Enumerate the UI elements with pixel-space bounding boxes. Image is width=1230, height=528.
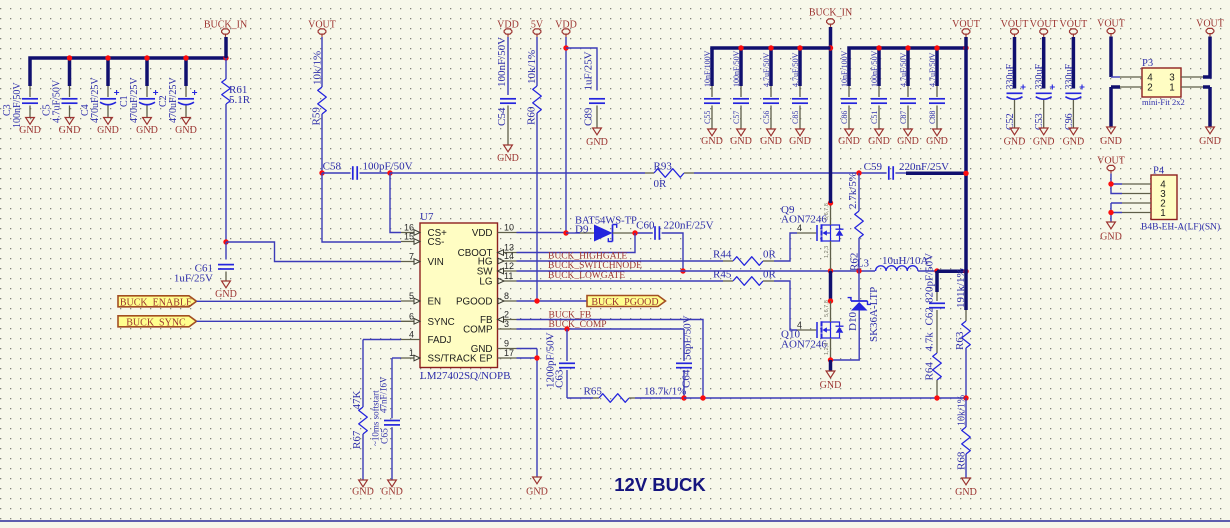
wire VDD vertical (565, 37, 567, 233)
ground GND (power stage) (829, 360, 833, 371)
svg-text:12V BUCK: 12V BUCK (614, 474, 706, 495)
ground GND (R67) (359, 480, 368, 487)
pin 2 FB (U7 right) (498, 319, 517, 321)
svg-text:0R: 0R (654, 178, 668, 190)
svg-text:820pF/50V: 820pF/50V (924, 253, 936, 303)
svg-text:GND: GND (1199, 136, 1221, 147)
wire R44 to Q9 gate (774, 233, 797, 261)
junction L3 out / C62 (937,271) (934, 268, 939, 273)
ground GND (C87) (904, 129, 913, 136)
resistor R67 47K (363, 339, 401, 341)
svg-text:2.7k/5%: 2.7k/5% (847, 172, 859, 209)
wire FB rail (684, 397, 966, 399)
pin 16 CS+ (U7 left) (401, 232, 420, 234)
resistor R59 10k/1% (321, 37, 323, 87)
svg-text:BUCK_LOWGATE: BUCK_LOWGATE (548, 271, 625, 281)
ground GND (P3 pin 1) (1203, 87, 1210, 127)
pin 13 CBOOT (U7 right) (498, 252, 517, 254)
svg-text:BUCK_HIGHGATE: BUCK_HIGHGATE (548, 252, 627, 262)
svg-text:47K: 47K (351, 391, 363, 410)
junction bus B x=937 (934, 45, 939, 50)
resistor R61 5.1R (225, 58, 227, 79)
svg-text:PGOOD: PGOOD (456, 297, 492, 308)
pin 1 (P4) (1122, 212, 1151, 214)
svg-text:R59: R59 (311, 107, 323, 126)
svg-text:1uF/25V: 1uF/25V (174, 273, 213, 285)
junction R63/R68 (966,398) (963, 395, 968, 400)
svg-text:C89: C89 (583, 107, 595, 126)
capacitor C56 4.7uF/50V (770, 86, 772, 97)
junction VOUT rail (966,271) (963, 269, 968, 274)
junction COMP/C63 (567,329) (564, 326, 569, 331)
junction Q10 drain (830.5,301) (828, 298, 833, 303)
ground GND (C5) (65, 118, 74, 125)
resistor R60 10k/1% (536, 37, 538, 86)
junction SW/R62/D10 (859,271) (856, 268, 861, 273)
svg-text:220nF/25V: 220nF/25V (664, 220, 714, 232)
capacitor C58 100pF/50V (322, 172, 351, 174)
svg-text:C65: C65 (381, 428, 391, 444)
ground GND (C88) (933, 129, 942, 136)
svg-text:C56: C56 (762, 111, 771, 124)
ground GND (C86) (845, 129, 854, 136)
inductor L3 10uH/10A (876, 266, 918, 271)
svg-text:AON7246: AON7246 (781, 214, 827, 226)
svg-text:4: 4 (409, 330, 414, 340)
svg-text:0R: 0R (763, 269, 777, 281)
capacitor C59 220nF/25V (888, 166, 890, 180)
svg-text:47nF/16V: 47nF/16V (379, 376, 389, 413)
junction BUCK_IN bus x=186 (183, 55, 188, 60)
port flag BUCK_SYNC (118, 316, 197, 327)
pin 14 HG (U7 right) (498, 260, 517, 262)
junction C60/SW (683,271) (680, 268, 685, 273)
svg-text:COMP: COMP (463, 325, 493, 336)
pin 7 VIN (U7 left) (401, 261, 420, 263)
svg-text:100nF/50V: 100nF/50V (12, 82, 23, 128)
svg-text:R68: R68 (956, 451, 968, 470)
svg-text:10k/1%: 10k/1% (526, 50, 538, 84)
svg-text:BUCK_PGOOD: BUCK_PGOOD (591, 297, 658, 308)
svg-text:330uF: 330uF (1005, 64, 1016, 90)
svg-text:AON7246: AON7246 (781, 339, 827, 351)
svg-text:GND: GND (838, 136, 860, 147)
svg-text:GND: GND (760, 136, 782, 147)
wire R93 to C59 (694, 172, 887, 174)
svg-text:GND: GND (1100, 232, 1122, 243)
wire VOUT rail vertical (thick) (964, 37, 968, 271)
svg-text:R44: R44 (713, 249, 732, 261)
junction P4 pin1 (1111,212.5) (1108, 210, 1113, 215)
svg-text:2: 2 (504, 310, 509, 320)
svg-text:330uF: 330uF (1064, 64, 1075, 90)
svg-text:GND: GND (136, 125, 158, 136)
svg-text:6: 6 (409, 311, 414, 321)
junction CS+ node (390,173) (387, 170, 392, 175)
capacitor C3 100nF/50V (29, 86, 31, 97)
svg-text:1,2,3: 1,2,3 (824, 246, 830, 258)
pin 4 (P4) (1122, 183, 1151, 185)
svg-text:P3: P3 (1142, 58, 1153, 69)
svg-text:GND: GND (352, 487, 374, 498)
junction Q10 source / D10 anode (830.5,360) (828, 357, 833, 362)
junction Q9 drain (830.5,203) (828, 200, 833, 205)
svg-text:C59: C59 (864, 161, 883, 173)
resistor R65 18.7k/1% (567, 397, 593, 399)
svg-text:470uF/25V: 470uF/25V (168, 77, 179, 123)
pin 2 (P4) (1122, 202, 1151, 204)
wire SW node bar Q9-Q10 (thick) (829, 271, 833, 301)
junction VIN node (226,242) (223, 239, 228, 244)
pin 10 VDD (U7 right) (498, 232, 517, 234)
svg-text:10uH/10A: 10uH/10A (882, 255, 929, 267)
svg-text:GND: GND (897, 136, 919, 147)
svg-text:470uF/25V: 470uF/25V (90, 77, 101, 123)
wire PGOOD pin 8 (517, 300, 588, 302)
ground GND (C53) (1039, 128, 1048, 135)
port flag BUCK_ENABLE (118, 296, 197, 307)
wire VOUT bus (right bank B) (849, 48, 966, 86)
wire GND to P4 pins 2,1 (1111, 203, 1122, 222)
junction R64 bottom (937,398) (934, 395, 939, 400)
svg-text:EP: EP (479, 354, 493, 365)
svg-text:14: 14 (504, 251, 514, 261)
ground GND (C89) (593, 128, 602, 135)
svg-text:FADJ: FADJ (428, 335, 452, 346)
wire COMP pin 3 (517, 328, 685, 330)
svg-text:100nF/50V: 100nF/50V (732, 50, 741, 87)
junction CBOOT node (635,233) (632, 230, 637, 235)
capacitor C65 47nF/16V (392, 357, 401, 359)
svg-text:GND: GND (1004, 137, 1026, 148)
svg-text:4.7uF/50V: 4.7uF/50V (928, 52, 937, 87)
svg-text:D9: D9 (575, 224, 589, 236)
svg-text:9: 9 (504, 339, 509, 349)
ground GND (C2) (182, 118, 191, 125)
svg-text:8: 8 (504, 291, 509, 301)
wire BUCK_IN bus (right bank A) (712, 48, 831, 86)
wire BUCK_SYNC to SYNC pin 6 (197, 320, 402, 322)
pin 3 (P4) (1122, 193, 1151, 195)
capacitor C86 10nF/100V (848, 86, 850, 97)
connector P4 B4B-EH-A(LF)(SN) (1151, 175, 1177, 220)
svg-text:10: 10 (504, 223, 514, 233)
svg-text:C58: C58 (323, 161, 342, 173)
svg-text:1: 1 (1160, 208, 1165, 219)
svg-text:GND: GND (97, 125, 119, 136)
junction BUCK_IN bus (830.5,48) (828, 45, 833, 50)
capacitor C63 1200pF/50V (566, 329, 568, 361)
svg-text:SYNC: SYNC (428, 317, 455, 328)
svg-text:3: 3 (504, 319, 509, 329)
svg-text:10nF/100V: 10nF/100V (840, 50, 849, 87)
svg-text:BUCK_IN: BUCK_IN (809, 8, 852, 19)
pin 9 GND (U7 right) (498, 348, 517, 350)
ground GND (C65) (388, 480, 397, 487)
svg-text:56pF/50V: 56pF/50V (682, 315, 694, 360)
wire VOUT to P3 pin 3 (thick) (1203, 37, 1210, 78)
svg-text:10k/1%: 10k/1% (957, 395, 968, 426)
svg-text:GND: GND (175, 125, 197, 136)
ground GND (R68) (962, 478, 971, 485)
svg-text:100pF/50V: 100pF/50V (363, 161, 413, 173)
svg-text:1uF/25V: 1uF/25V (583, 51, 595, 90)
svg-text:GND: GND (59, 125, 81, 136)
ground GND (P4) (1107, 222, 1116, 229)
junction BUCK_IN bus x=69.5 (67, 55, 72, 60)
ground GND (U7) (533, 477, 542, 484)
svg-text:11: 11 (504, 271, 513, 281)
svg-text:VDD: VDD (472, 228, 493, 239)
capacitor C61 1uF/25V (225, 242, 227, 260)
svg-text:GND: GND (497, 153, 519, 164)
transistor Q10 AON7246 (797, 329, 816, 331)
svg-text:R65: R65 (584, 386, 603, 398)
junction EP (537,358) (534, 355, 539, 360)
svg-text:C63: C63 (554, 369, 566, 388)
ground GND (C1) (143, 118, 152, 125)
svg-text:GND: GND (789, 136, 811, 147)
wire VIN to pin 7 (226, 242, 401, 262)
capacitor C57 100nF/50V (740, 86, 742, 97)
ground GND (C61) (222, 281, 231, 288)
svg-text:2: 2 (1147, 83, 1152, 94)
svg-text:GND: GND (730, 136, 752, 147)
diode D10 SK36A-LTP (858, 271, 860, 301)
svg-text:mini-Fit 2x2: mini-Fit 2x2 (1142, 97, 1185, 107)
svg-text:100nF/50V: 100nF/50V (870, 50, 879, 87)
svg-text:EN: EN (428, 297, 442, 308)
svg-text:P4: P4 (1153, 166, 1165, 177)
svg-text:4.7uF/50V: 4.7uF/50V (52, 79, 63, 123)
svg-text:15: 15 (404, 232, 414, 242)
wire HG pin 14 to R44 (517, 260, 724, 262)
pin 6 SYNC (U7 left) (401, 320, 420, 322)
junction bus A x=741 (738, 45, 743, 50)
junction C64 bottom (684,398) (681, 395, 686, 400)
svg-text:CS-: CS- (428, 237, 445, 248)
junction FB down-wire (703,398) (700, 395, 705, 400)
svg-text:GND: GND (701, 136, 723, 147)
pin 1 (P3) (1181, 86, 1203, 88)
svg-text:R63: R63 (954, 331, 966, 350)
svg-text:GND: GND (1063, 137, 1085, 148)
svg-text:C86: C86 (840, 111, 849, 124)
resistor R62 2.7k/5% (858, 173, 860, 211)
pin 11 LG (U7 right) (498, 280, 517, 282)
wire CS- (322,173) down to pin 15 (322, 173, 401, 242)
pin 5 EN (U7 left) (401, 300, 420, 302)
svg-text:D10: D10 (847, 312, 859, 331)
ground GND (P3 pin 2) (1111, 87, 1120, 127)
wire LG pin 11 to R45 (517, 280, 724, 282)
ground GND (C56) (767, 129, 776, 136)
svg-text:C87: C87 (899, 111, 908, 124)
pin 1 SS/TRACK (U7 left) (401, 357, 420, 359)
capacitor C60 220nF/25V (654, 226, 656, 240)
ground GND (C52) (1010, 128, 1019, 135)
svg-text:5.1R: 5.1R (229, 94, 251, 106)
junction VOUT bus/vertical (966,48) (963, 45, 968, 50)
capacitor C55 10nF/100V (711, 86, 713, 97)
svg-text:5,6,7,8: 5,6,7,8 (824, 300, 830, 317)
svg-text:R67: R67 (351, 430, 363, 449)
ground GND (C3) (26, 118, 35, 125)
port flag BUCK_PGOOD (587, 296, 666, 307)
capacitor C1 470uF/25V (146, 86, 148, 97)
svg-text:GND: GND (926, 136, 948, 147)
junction SW/Q9-Q10 (830.5,271) (828, 268, 833, 273)
svg-text:VIN: VIN (428, 257, 444, 268)
svg-text:R60: R60 (526, 106, 538, 125)
ground GND (C54) (504, 145, 513, 152)
junction VDD/C89 (566,48) (563, 45, 568, 50)
wire FB pin 2 (517, 320, 704, 399)
svg-text:1: 1 (409, 348, 414, 358)
junction BUCK_IN bus x=226 (223, 55, 228, 60)
capacitor C85 4.7uF/50V (799, 86, 801, 97)
pin 4 (P3) (1120, 76, 1142, 78)
sheet border line (0, 520, 1230, 522)
svg-text:U7: U7 (420, 211, 434, 223)
svg-text:191k/1%: 191k/1% (955, 268, 967, 308)
junction bus A x=800 (797, 45, 802, 50)
wire L3 to VOUT rail (thick) (937, 270, 966, 274)
svg-text:4.7uF/50V: 4.7uF/50V (762, 52, 771, 87)
svg-text:C51: C51 (870, 111, 879, 124)
svg-text:0R: 0R (763, 249, 777, 261)
junction bus A x=771 (768, 45, 773, 50)
capacitor C5 4.7uF/50V (69, 86, 71, 97)
wire BUCK_IN vertical (thick) (829, 27, 833, 203)
junction BUCK_IN bus x=108 (105, 55, 110, 60)
svg-text:GND: GND (955, 487, 977, 498)
op-amp U7 LM27402SQ/NOPB (buck controller IC) (420, 223, 498, 368)
svg-text:4.7uF/50V: 4.7uF/50V (899, 52, 908, 87)
svg-text:C55: C55 (703, 111, 712, 124)
resistor R93 0R (645, 172, 654, 174)
pin 2 (P3) (1120, 86, 1142, 88)
wire CS+ (390,173) down to pin 16 (390, 173, 401, 233)
svg-text:220nF/25V: 220nF/25V (899, 161, 949, 173)
capacitor C52 330uF (1013, 37, 1017, 89)
svg-text:C54: C54 (496, 107, 508, 126)
junction VOUT rail/C59 (966,173) (963, 171, 968, 176)
capacitor C87 4.7uF/50V (907, 86, 909, 97)
svg-text:R64: R64 (924, 362, 936, 381)
wire VOUT to P3 pin 4 (thick) (1109, 37, 1113, 78)
svg-text:R45: R45 (713, 269, 732, 281)
junction sense node (322,173) (319, 170, 324, 175)
svg-text:GND: GND (381, 487, 403, 498)
svg-text:GND: GND (586, 137, 608, 148)
diode D9 BAT54WS-TP (566, 232, 580, 234)
svg-text:10k/1%: 10k/1% (312, 51, 324, 85)
capacitor C2 470uF/25V (185, 86, 187, 97)
svg-text:GND: GND (1100, 136, 1122, 147)
svg-text:GND: GND (820, 380, 842, 391)
resistor R63 191k/1% (964, 271, 968, 310)
svg-text:100nF/50V: 100nF/50V (496, 37, 508, 87)
pin 17 EP (U7 right) (498, 357, 517, 359)
svg-text:GND: GND (19, 125, 41, 136)
wire BUCK_IN bus (left cap bank) (30, 58, 226, 86)
ground GND (C57) (737, 129, 746, 136)
svg-text:B4B-EH-A(LF)(SN): B4B-EH-A(LF)(SN) (1141, 222, 1220, 233)
junction VDD pin10/D9 (566,233) (517, 232, 567, 234)
wire sense line to R93 (390, 172, 645, 174)
pin 4 FADJ (U7 left) (401, 339, 420, 341)
ground GND (C55) (708, 129, 717, 136)
svg-text:GND: GND (868, 136, 890, 147)
transistor Q9 AON7246 (797, 232, 816, 234)
svg-text:BUCK_ENABLE: BUCK_ENABLE (120, 297, 192, 308)
capacitor C54 100nF/50V (507, 37, 509, 95)
svg-text:4.7k: 4.7k (924, 332, 936, 352)
junction R62 top (859,173) (856, 170, 861, 175)
svg-text:BUCK_SYNC: BUCK_SYNC (126, 317, 186, 328)
svg-text:GND: GND (215, 289, 237, 300)
svg-text:1,2,3: 1,2,3 (824, 343, 830, 355)
wire SW pin 12 (BUCK_SWITCHNODE) (517, 270, 876, 272)
resistor R45 0R (723, 280, 733, 282)
svg-text:R62: R62 (849, 253, 861, 271)
junction BUCK_IN bus x=147 (144, 55, 149, 60)
capacitor C88 4.7uF/50V (936, 86, 938, 97)
svg-text:17: 17 (504, 348, 514, 358)
junction bus B x=879 (876, 45, 881, 50)
svg-text:C57: C57 (732, 111, 741, 124)
svg-text:SS/TRACK: SS/TRACK (428, 354, 477, 365)
junction P4 pin4 (1111,184) (1108, 181, 1113, 186)
resistor R44 0R (723, 260, 733, 262)
capacitor C4 470uF/25V (107, 86, 109, 97)
svg-text:330uF: 330uF (1034, 64, 1045, 90)
pin 15 CS- (U7 left) (401, 241, 420, 243)
svg-text:C85: C85 (791, 111, 800, 124)
svg-text:5,6,7,8: 5,6,7,8 (824, 203, 830, 220)
wire BUCK_IN port to bus (224, 37, 228, 58)
svg-text:18.7k/1%: 18.7k/1% (644, 386, 686, 398)
capacitor C51 100nF/50V (878, 86, 880, 97)
pin 12 SW (U7 right) (498, 270, 517, 272)
ground GND (C96) (1069, 128, 1078, 135)
junction bus B x=908 (905, 45, 910, 50)
resistor R68 10k/1% (965, 398, 967, 427)
pin 8 PGOOD (U7 right) (498, 300, 517, 302)
svg-text:BUCK_SWITCHNODE: BUCK_SWITCHNODE (548, 261, 642, 271)
capacitor C53 330uF (1042, 37, 1046, 89)
svg-text:5: 5 (409, 291, 414, 301)
ground GND (C51) (875, 129, 884, 136)
svg-text:7: 7 (409, 252, 414, 262)
svg-text:C88: C88 (928, 111, 937, 124)
wire C59 to VOUT rail (thick) (906, 172, 966, 176)
wire CBOOT pin 13 (517, 233, 636, 253)
capacitor C96 330uF (1072, 37, 1076, 89)
svg-text:LG: LG (479, 277, 492, 288)
wire GND pin 9 / EP pin 17 (517, 349, 538, 478)
ground GND (C4) (104, 118, 113, 125)
junction PGOOD/R60 (537,301) (534, 298, 539, 303)
ground GND (C85) (796, 129, 805, 136)
capacitor C89 1uF/25V (566, 48, 597, 91)
wire R45 to Q10 gate (774, 281, 797, 330)
svg-text:1: 1 (1169, 83, 1174, 94)
svg-text:C62: C62 (924, 307, 936, 325)
svg-text:R93: R93 (654, 161, 673, 173)
svg-text:10nF/100V: 10nF/100V (703, 50, 712, 87)
